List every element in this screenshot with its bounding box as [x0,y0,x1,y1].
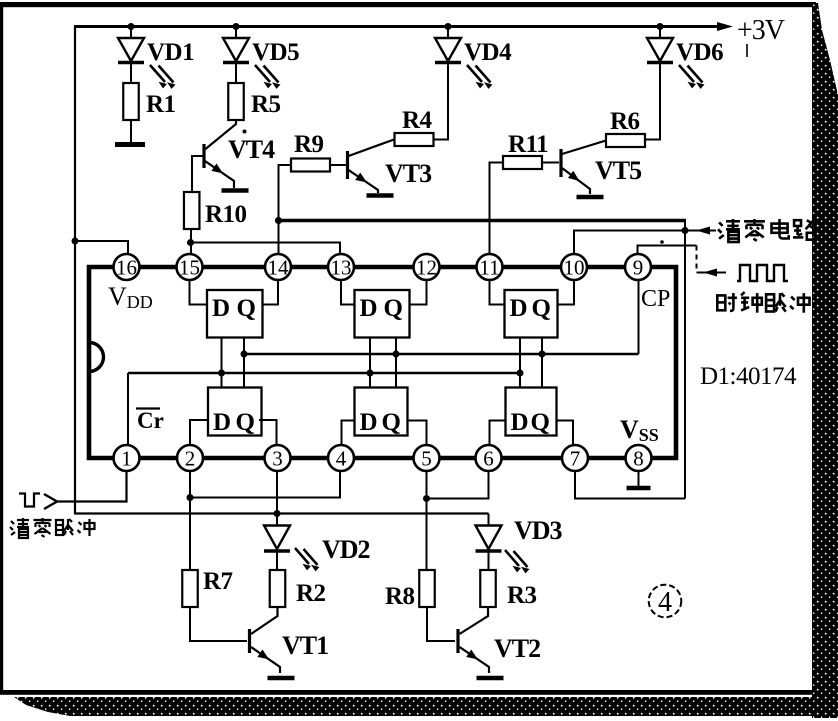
clock square wave symbol [737,265,788,281]
wire FF2 clock vertical left [369,338,371,388]
transistor VT4 base bar [202,144,205,168]
wire R2 to VT1 collector [251,607,278,634]
junction rail-VD4 [445,23,452,30]
svg-text:R5: R5 [251,91,281,118]
LED VD4 diode symbol [435,38,461,61]
pin 4 [328,445,354,471]
junction VD2 anode [274,510,281,517]
svg-text:R6: R6 [610,108,640,135]
svg-text:2: 2 [185,447,196,471]
flip-flop FF2 lower [355,388,408,436]
wire VD2-R2 [276,551,278,570]
resistor R8 [419,570,435,607]
junction pin5 link [423,495,430,502]
wire VD4 drop to R4 [447,64,449,140]
svg-text:Q: Q [532,295,551,322]
junction B-FF3 [517,370,524,377]
VD3 light arrows [505,550,519,566]
wire pin2-pin4 link [190,471,340,498]
wire FF1 clock vertical left [221,338,223,388]
transistor VT4 emitter [205,161,234,188]
wire pin15 to FF1 D [190,280,208,305]
svg-text:Q: Q [382,409,401,436]
svg-text:VD5: VD5 [252,39,299,66]
wire +3V left drop (x=75) [74,25,76,515]
junction A-FF3 [539,351,546,358]
resistor R6 [606,134,645,147]
svg-text:10: 10 [564,256,585,280]
transistor VT5 emitter [562,168,590,194]
wire R11 left to pin11 riser [490,163,504,256]
resistor R7 [182,570,198,607]
page-edge shadow bottom band [14,697,838,716]
svg-text:R8: R8 [385,583,415,610]
+3V rail arrowhead [717,22,733,31]
wire line A riser to pin9 [638,280,640,354]
svg-text:1: 1 [121,447,132,471]
clear bus thick line [279,219,687,223]
wire FF1 lower Q to pin3 [259,420,277,446]
wire +3V drop to pin16 [75,241,128,255]
LED VD2 [264,526,290,550]
svg-text:VD2: VD2 [322,535,370,564]
wire R4 right to VD4 [434,139,450,141]
junction A-FF1 [241,351,248,358]
wire R9 left to pin14 riser [279,165,292,255]
pin 9 [625,254,651,280]
svg-text:R4: R4 [402,107,433,134]
svg-text:5: 5 [421,447,432,471]
wire VD3-R3 [488,551,490,570]
svg-text:3: 3 [272,447,283,471]
wire R10-pin15 with branch [190,229,192,255]
resistor R1 [123,83,139,120]
arrowhead to clear-circuit label [696,227,710,235]
clear bus line B [128,372,520,375]
svg-text:16: 16 [116,256,137,280]
svg-text:Q: Q [237,295,256,322]
svg-text:13: 13 [331,256,352,280]
junction rail-VD5 [233,23,240,30]
border frame top bar [0,2,816,7]
pin 6 [476,445,502,471]
wire pin5 junction down to R8 [426,499,428,571]
resistor R9 [291,159,330,172]
junction B-FF2 [367,370,374,377]
pin 16 [114,254,140,280]
pin 2 [177,445,203,471]
pin 13 [328,254,354,280]
wire VD5-R5 [235,64,237,83]
ground VT1 [268,676,295,681]
svg-text:15: 15 [179,256,200,280]
+3V power rail [75,25,722,28]
svg-text:R2: R2 [296,580,326,607]
scan speck near VT4 [243,130,247,134]
LED VD5 anode stub [235,28,237,38]
junction +3V drop [72,238,79,245]
junction B-FF1 [218,370,225,377]
IC D1 outline [89,267,676,458]
VD2 light arrows [295,548,309,564]
pin 8 [626,445,652,471]
junction R10 bottom [187,239,194,246]
LED VD4 light arrows [467,65,482,82]
LED VD1 diode symbol [118,38,144,61]
LED VD6 anode stub [659,28,661,38]
svg-text:VT5: VT5 [595,156,642,185]
svg-text:D: D [212,295,230,322]
wire pin2 junction down to R7 [189,498,191,571]
svg-text:VD1: VD1 [147,39,194,66]
flip-flop FF1 lower [208,388,262,436]
svg-text:R11: R11 [508,131,548,158]
LED VD4 anode stub [447,28,449,38]
wire R7 to VT1 base [190,607,247,641]
wire pin6 to FF3 lower D [490,421,506,447]
wire clear input to pin1 [57,471,127,502]
label 清零电路 (clear circuit) [719,222,723,226]
wire R8 to VT2 base [427,607,455,641]
junction clear bus at pin14 riser [275,217,282,224]
wire VD1-R1 [130,64,132,83]
svg-text:VT2: VT2 [494,634,540,663]
wire clock dashed segment [696,246,698,273]
svg-text:+3V: +3V [737,15,785,46]
svg-text:VT1: VT1 [282,631,328,660]
wire FF3 clock vertical right [541,338,543,388]
transistor VT1 base bar [248,629,251,653]
svg-text:R7: R7 [203,568,233,595]
wire pin10 to clear-circuit label [574,231,716,256]
wire FF3 clock vertical left [519,338,521,388]
wire R9 right to VT3 base [330,164,346,166]
border frame left line [0,2,3,694]
transistor VT1 emitter [251,647,280,673]
anode feed line y=513.5 [75,512,489,514]
svg-text:4: 4 [658,587,672,618]
junction rail-VD1 [128,23,135,30]
wire pin7 to clock vertical [575,471,685,499]
wire FF2 clock vertical right [395,338,397,388]
wire R5-VT4 collector [206,120,237,149]
wire R10 junction to pin13 [191,243,341,256]
wire R3 to VT2 collector [460,607,489,634]
transistor VT5 collector [562,141,606,155]
pin 12 [414,254,440,280]
figure number circled 4 [649,585,682,618]
pin 14 [265,254,291,280]
LED VD1 anode stub [130,28,132,38]
svg-text:D1:40174: D1:40174 [700,363,797,390]
label 清零脉冲 (clear pulse) [11,521,14,524]
svg-text:7: 7 [570,447,581,471]
resistor R2 [270,570,286,607]
wire FF3 Q to pin10 [558,280,575,305]
junction A-FF2 [393,351,400,358]
junction pin2 link [187,494,194,501]
svg-text:VT4: VT4 [228,135,275,164]
pin 11 [477,254,503,280]
svg-text:VD4: VD4 [464,39,512,66]
wire VD6 drop to R6 [659,64,661,140]
svg-text:Q: Q [236,409,255,436]
label 时钟脉冲 (clock pulse) [717,295,725,310]
resistor R3 [480,570,496,607]
pin 5 [414,445,440,471]
+3V plus stem mark [746,44,748,57]
wire FF1 Q to pin14 [263,280,279,305]
resistor R10 [184,192,200,229]
svg-text:D: D [510,295,528,322]
svg-text:R9: R9 [294,131,324,158]
ground pin8 (VSS) [638,471,640,486]
border frame bottom line [0,690,813,695]
pin 7 [562,445,588,471]
pin 15 [177,254,203,280]
svg-text:14: 14 [268,256,290,280]
wire pin4 to FF2 lower D [342,421,355,447]
pin 10 [561,254,587,280]
svg-text:4: 4 [336,447,347,471]
svg-text:VD6: VD6 [676,39,723,66]
transistor VT2 base bar [456,629,459,653]
LED VD6 light arrows [679,65,694,82]
wire FF2 lower Q to pin5 [408,421,427,447]
svg-text:Q: Q [531,409,550,436]
svg-text:VD3: VD3 [514,516,563,545]
pin 3 [265,445,291,471]
flip-flop FF3 lower [506,388,557,436]
svg-text:R1: R1 [146,91,176,118]
svg-text:R3: R3 [507,582,537,609]
resistor R5 [228,83,244,120]
junction rail-VD6 [657,23,664,30]
LED VD6 diode symbol [647,38,673,61]
LED VD5 light arrows [255,65,270,82]
wire pin9 clock riser [638,246,697,256]
flip-flop FF3 upper [505,290,558,338]
svg-text:9: 9 [633,256,644,280]
wire FF3 lower Q to pin7 [557,421,574,447]
flip-flop FF1 upper [207,290,263,338]
ground VT4 [222,188,249,193]
wire FF1 clock vertical right [243,338,245,388]
pin 1 [114,445,140,471]
wire R1-ground [130,120,132,142]
wire pin5-pin6 link [427,471,489,499]
ground VT5 [577,195,604,200]
LED VD5 diode symbol [223,38,249,61]
wire clear bus vertical drop (x=685) [684,221,686,499]
wire anode line to VD3 [488,514,490,526]
transistor VT3 collector [349,140,395,157]
ground VT3 [367,193,394,198]
transistor VT5 base bar [559,149,562,177]
clear pulse input arrow [44,494,57,509]
wire FF2 Q to pin12 [410,280,427,305]
wire pin2 to FF1 lower D [190,420,208,446]
svg-text:Q: Q [384,295,403,322]
junction clear vertical [682,227,689,234]
svg-text:6: 6 [483,447,494,471]
transistor VT3 base bar [346,151,349,179]
IC notch [89,343,104,372]
resistor R11 [503,156,542,169]
wire pin13 to FF2 D [341,280,355,305]
svg-text:R10: R10 [205,201,247,228]
clock bus line A [244,353,639,356]
transistor VT2 emitter [460,647,490,673]
svg-text:11: 11 [479,256,499,280]
ground R1 [115,142,145,147]
wire clock entry with arrowhead [697,272,727,274]
svg-text:CP: CP [641,286,670,312]
svg-text:D: D [213,409,231,436]
transistor VT4 base wire [192,156,204,192]
transistor VT3 emitter [349,170,379,193]
wire pin11 to FF3 D [490,280,505,305]
resistor R4 [395,133,434,146]
svg-text:12: 12 [416,256,437,280]
svg-text:Cr: Cr [137,408,164,433]
svg-text:D: D [360,409,378,436]
svg-text:8: 8 [633,447,644,471]
svg-text:D: D [360,295,378,322]
wire line B drop to pin1 [127,373,129,446]
wire R11 right to VT5 base [542,162,559,164]
scan speck middle right [660,240,664,244]
clear pulse input waveform symbol [19,494,40,507]
LED VD3 [476,526,502,550]
wire pin3 to VD2 [276,471,278,526]
ground VT2 [477,676,504,681]
svg-text:VT3: VT3 [385,159,432,188]
LED VD1 light arrows [150,65,165,82]
flip-flop FF2 upper [355,290,410,338]
svg-text:D: D [511,409,529,436]
